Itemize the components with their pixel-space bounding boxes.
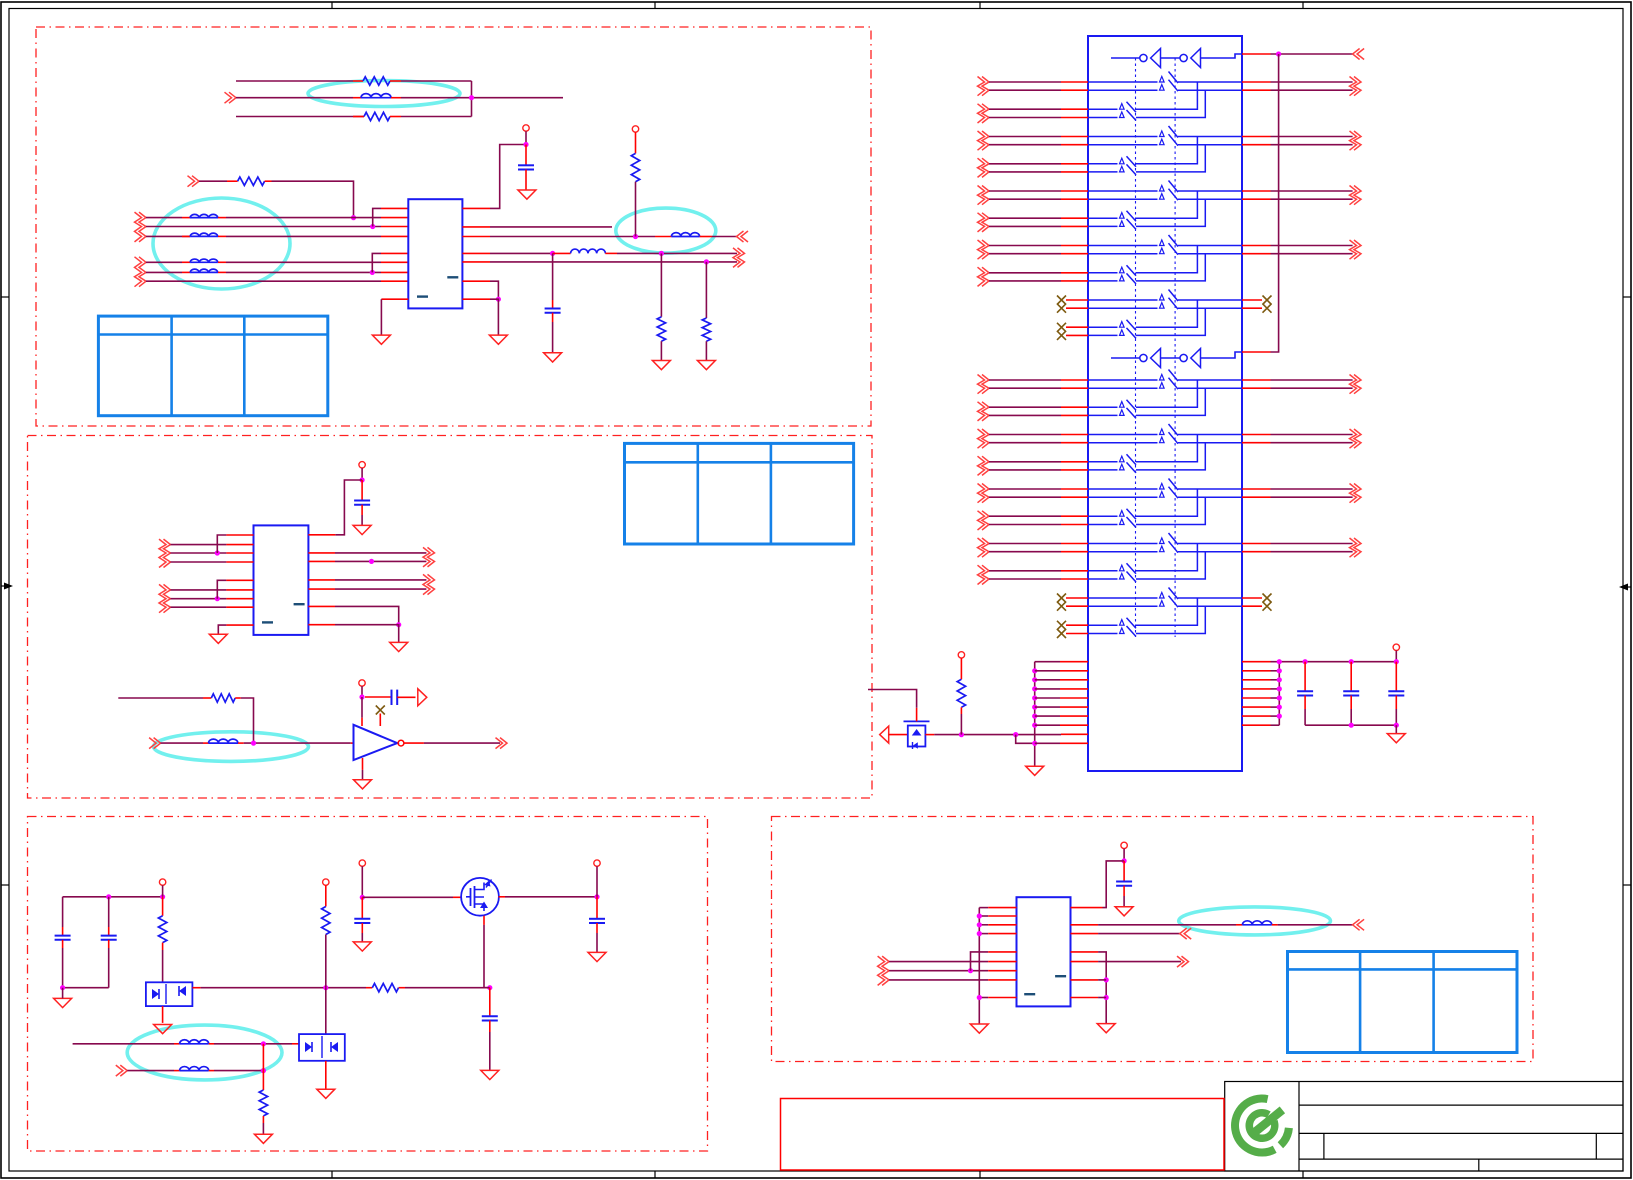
U5 switch B1 g0 blade bbox=[1127, 400, 1137, 410]
U5 switch A2 g4 line bbox=[1088, 605, 1158, 607]
junction C bottom bbox=[60, 985, 65, 990]
pin stub opamp out bbox=[404, 742, 424, 744]
port chevron U5 top g0 A bbox=[978, 77, 985, 96]
U5 switch A1 g2 out bbox=[1178, 488, 1242, 490]
U5 switch A1 g0 line bbox=[1088, 379, 1158, 381]
port chevron U5 top g3 A bbox=[978, 240, 985, 259]
pin stub D2 left bbox=[292, 1043, 299, 1045]
wire VCC4 stem bbox=[361, 686, 363, 697]
U5 switch A1 g4 contact bbox=[1160, 592, 1165, 598]
U5 switch A1 g3 line bbox=[1088, 543, 1158, 545]
wire U4 buspin4 bbox=[979, 933, 988, 935]
ground C2 bbox=[544, 353, 562, 362]
ic U4 bbox=[1017, 897, 1071, 1006]
wire bundleB row2 bbox=[146, 271, 182, 273]
pin stub U5 top g3 A b bbox=[1061, 253, 1088, 255]
pin stub Q1 source bbox=[483, 916, 485, 925]
pin stub U5 bot g2 B b bbox=[1061, 524, 1088, 526]
junction U5 lbus 7 bbox=[1032, 714, 1037, 719]
wire U2 out1 bbox=[335, 552, 426, 554]
wire U5 bottom rail bbox=[1305, 724, 1396, 726]
junction VCC4 bbox=[359, 694, 364, 699]
pin stub U5 top g1 B b bbox=[1061, 171, 1088, 173]
U5 switch B1 g2 line bbox=[1088, 515, 1118, 517]
port chevron U5 bot g0 A bbox=[978, 375, 985, 394]
port chevron U5 bot g2 B bbox=[978, 511, 985, 530]
U5 switch B1 g0 contact bbox=[1120, 402, 1125, 408]
ground C9 bbox=[481, 1070, 499, 1079]
dashed block border A (ethernet section) bbox=[36, 27, 871, 426]
wire net A-out4 bbox=[490, 261, 737, 263]
pin stub U5 top g1 B a bbox=[1061, 163, 1088, 165]
pin stub U5 top g0 out b bbox=[1242, 89, 1271, 91]
U5 switch A1 g1 contact bbox=[1160, 131, 1165, 137]
title block row line 1 bbox=[1299, 1104, 1623, 1106]
wire C bottom rail bbox=[63, 987, 109, 989]
U5 switch A2 g1 line bbox=[1088, 144, 1158, 146]
pin stub U5 rb3 bbox=[1242, 679, 1271, 681]
pin stub U5 bot g0 B b bbox=[1061, 414, 1088, 416]
pin stub U5 bot g1 A a bbox=[1061, 434, 1088, 436]
wire R12 down bbox=[960, 714, 962, 735]
pin stub U5 bot g0 out b bbox=[1242, 387, 1271, 389]
capacitor C13 bbox=[1388, 690, 1404, 692]
wire U5 top g1 out a bbox=[1271, 136, 1353, 138]
U5 switch B2 g2 contact bbox=[1120, 519, 1125, 525]
pin stub U5 inv out top bbox=[1242, 53, 1271, 55]
wire Q2 gate bbox=[868, 690, 917, 708]
wire U5 lbus pin5 bbox=[1035, 697, 1060, 699]
wire U1 pin9 gnd bbox=[380, 299, 382, 335]
pin stub U5 top g1 out b bbox=[1242, 144, 1271, 146]
wire bundleA row1 bbox=[146, 217, 182, 219]
port chevron U5 bot g0 B bbox=[978, 402, 985, 421]
wire VCC3 to U2 bbox=[335, 480, 362, 535]
wire U5 lbus pin8 bbox=[1035, 724, 1060, 726]
port chevron U5 bot g0 out bbox=[1350, 375, 1357, 394]
pin stub U5 lb8 bbox=[1060, 724, 1088, 726]
wire U5 top g1 B b bbox=[989, 171, 1061, 173]
wire U5 bot g1 out b bbox=[1271, 442, 1353, 444]
frame zone tick right bbox=[1623, 884, 1631, 886]
wire U5 lbus pin7 bbox=[1035, 715, 1060, 717]
U5 inverter output wire bbox=[1201, 54, 1243, 58]
pin stub opamp gnd bbox=[362, 758, 364, 770]
U5 switch A2 g1 blade bbox=[1169, 134, 1179, 146]
frame zone tick top bbox=[1302, 2, 1304, 9]
pin stub U5 bot g2 B a bbox=[1061, 515, 1088, 517]
title block outline bbox=[1225, 1082, 1623, 1172]
ground U4 right bbox=[1097, 1024, 1115, 1033]
pin stub U2 pin11 bbox=[308, 624, 335, 626]
analog switch U5 bbox=[1088, 36, 1242, 771]
pin stub U5 bot g4 out nc bbox=[1242, 605, 1262, 607]
pin stub FB1 right bbox=[391, 97, 401, 99]
U5 switch B2 g1 blade bbox=[1127, 164, 1137, 175]
U5 switch A1 g3 line bbox=[1088, 245, 1158, 247]
port chevron U4 out2 bbox=[1184, 928, 1191, 939]
wire U2 b1r1 bbox=[171, 544, 227, 546]
pin stub U5 top g0 B a bbox=[1061, 108, 1088, 110]
pin stub U2 pin16 bbox=[308, 552, 335, 554]
title block row line 3 bbox=[1299, 1158, 1623, 1160]
pin stub U5 bot g0 A a bbox=[1061, 379, 1088, 381]
pin stub FB7 right bbox=[238, 742, 244, 744]
capacitor C12 bbox=[1343, 690, 1359, 692]
ground R11 bbox=[254, 1134, 272, 1143]
highlight ellipse opamp bbox=[154, 732, 309, 762]
wire U5 lbus bbox=[1034, 662, 1036, 767]
pin stub FB5 right bbox=[218, 271, 226, 273]
ground U5 lbus bbox=[1026, 766, 1044, 775]
ferrite bead FB7 bbox=[209, 739, 239, 743]
op-amp U3 bbox=[354, 725, 398, 760]
pin stub Q2 left bbox=[889, 734, 908, 736]
pin stub U1 pin16 bbox=[462, 207, 490, 209]
wire L1 to port bbox=[617, 252, 737, 254]
U5 switch B1 g0 line bbox=[1088, 108, 1118, 110]
wire U1 pin11 gnd bbox=[490, 281, 498, 299]
junction U2 out2 bbox=[369, 559, 374, 564]
U5 switch B2 g4 contact bbox=[1120, 330, 1125, 336]
pin stub R3 left bbox=[227, 180, 238, 182]
power symbol VCC9 bbox=[1121, 842, 1127, 848]
pin stub U5 top g2 A a bbox=[1061, 190, 1088, 192]
pin stub U4 p2 bbox=[988, 915, 1016, 917]
resistor R8 lead2 bbox=[162, 943, 164, 950]
pin stub U5 top g0 out a bbox=[1242, 81, 1271, 83]
U5 switch A2 g4 contact bbox=[1160, 601, 1165, 607]
U5 switch B1 g2 contact bbox=[1120, 511, 1125, 517]
wire C top rail bbox=[63, 896, 163, 898]
capacitor C2 lead bbox=[552, 253, 554, 300]
U5 switch A1 g1 out bbox=[1178, 136, 1242, 138]
wire U4 buspin1 bbox=[979, 907, 988, 909]
U5 switch B2 g3 contact bbox=[1120, 275, 1125, 281]
pin stub U5 top g0 A a bbox=[1061, 81, 1088, 83]
pin stub D2 gnd bbox=[325, 1061, 327, 1089]
U5 switch A2 g1 contact bbox=[1160, 139, 1165, 145]
capacitor C1 bbox=[518, 164, 534, 166]
wire U4 p12 bbox=[1098, 979, 1106, 981]
junction bundleB row2 bbox=[370, 270, 375, 275]
U5 switch B1 g4 blade bbox=[1127, 618, 1137, 628]
U5 switch A1 g0 contact bbox=[1160, 374, 1165, 380]
U5 switch B1 g3 blade bbox=[1127, 265, 1137, 276]
pin stub U5 bot g1 out b bbox=[1242, 442, 1271, 444]
frame zone tick bottom bbox=[1302, 1171, 1304, 1178]
U5 switch B1 g4 contact bbox=[1120, 620, 1125, 626]
port chevron U5 top g1 B bbox=[978, 158, 985, 177]
wire U5 rbus bbox=[1278, 662, 1280, 726]
pin stub U4 p12 bbox=[1071, 979, 1099, 981]
U5 switch A1 g3 blade bbox=[1169, 235, 1179, 247]
pin stub L1 left bbox=[553, 252, 571, 254]
port chevron opamp out bbox=[496, 738, 503, 749]
pin stub D1 gnd bbox=[162, 1006, 164, 1023]
power symbol VCC6 bbox=[323, 879, 329, 885]
U5 switch A2 g4 blade bbox=[1169, 298, 1179, 310]
wire net A-out1 bbox=[490, 226, 612, 228]
U5 switch A1 g4 out bbox=[1178, 299, 1242, 301]
pin stub U5 top g1 A b bbox=[1061, 144, 1088, 146]
pin stub R1 right bbox=[390, 80, 401, 82]
junction U5 wrap bbox=[1276, 51, 1281, 56]
U5 switch B2 g1 line bbox=[1088, 171, 1118, 173]
U5 switch B2 g0 contact bbox=[1120, 112, 1125, 118]
U5 switch A1 g0 blade bbox=[1169, 370, 1179, 382]
U5 switch B1 g1 out bbox=[1136, 137, 1197, 164]
pin stub U1 pin3 bbox=[381, 226, 408, 228]
port chevron U5 top g0 B bbox=[978, 104, 985, 123]
pin stub U5 bot g4 out nc bbox=[1242, 597, 1262, 599]
table D bbox=[1288, 952, 1518, 1053]
port chevron U5 top g2 A bbox=[978, 186, 985, 205]
U4 pin mark a bbox=[1055, 975, 1066, 977]
pin stub U5 bot g0 B a bbox=[1061, 406, 1088, 408]
U5 switch A1 g3 contact bbox=[1160, 240, 1165, 246]
U5 switch B1 g3 out bbox=[1136, 544, 1197, 571]
U5 switch B1 g2 line bbox=[1088, 217, 1118, 219]
power symbol VCC3 bbox=[359, 462, 365, 468]
pin stub U1 pin8 bbox=[381, 280, 408, 282]
U5 inverter link wire bbox=[1161, 357, 1181, 359]
U5 switch A1 g3 out bbox=[1178, 245, 1242, 247]
wire U5 bot g3 A b bbox=[989, 551, 1061, 553]
junction U5 lbus 6 bbox=[1032, 705, 1037, 710]
capacitor C13 lead bbox=[1395, 662, 1397, 692]
U5 switch A2 g2 out bbox=[1178, 496, 1242, 498]
frame zone tick left bbox=[1, 884, 9, 886]
U5 switch A1 g4 blade bbox=[1169, 588, 1179, 600]
pin stub U5 top g3 B b bbox=[1061, 280, 1088, 282]
wire U5 rbus pin4 bbox=[1271, 688, 1280, 690]
wire U5 top g0 out a bbox=[1271, 81, 1353, 83]
U5 control dotted line 1 bbox=[1135, 58, 1137, 637]
pin stub U5 top g2 B a bbox=[1061, 217, 1088, 219]
wire VCC7 stem bbox=[361, 866, 363, 897]
wire bundleA row2 bbox=[146, 226, 381, 228]
pin stub FB3 right bbox=[218, 235, 226, 237]
pin stub U5 lb1 bbox=[1060, 661, 1088, 663]
U5 switch A1 g2 line bbox=[1088, 190, 1158, 192]
wire VCC11 stem bbox=[1395, 651, 1397, 662]
capacitor C2 lead2 bbox=[552, 313, 554, 322]
U5 switch A2 g4 blade bbox=[1169, 596, 1179, 608]
junction U5 rbus 6 bbox=[1277, 705, 1282, 710]
wire U5 rbus pin6 bbox=[1271, 706, 1280, 708]
resistor R8 bbox=[158, 916, 166, 943]
U5 switch B2 g1 contact bbox=[1120, 166, 1125, 172]
port chevron U4 in remote bbox=[1357, 919, 1364, 930]
pin stub U5 top g1 out a bbox=[1242, 136, 1271, 138]
pin stub U5 lb4 bbox=[1060, 688, 1088, 690]
pin stub U5 bot g0 out a bbox=[1242, 379, 1271, 381]
capacitor C3 lead2 bbox=[361, 505, 363, 515]
ground U4 bus bbox=[970, 1024, 988, 1033]
wire net A-top1 bbox=[236, 80, 353, 82]
junction enable a bbox=[959, 732, 964, 737]
wire U5 rbus pin2 bbox=[1271, 670, 1280, 672]
pin stub U5 top g4 B nc bbox=[1066, 334, 1088, 336]
pin stub U4 p8 bbox=[988, 970, 1016, 972]
junction brail a bbox=[1349, 723, 1354, 728]
junction U4 bus c bbox=[977, 931, 982, 936]
wire R10 to Q1 bbox=[405, 987, 490, 989]
highlight ellipse A-top bbox=[308, 81, 460, 107]
U5 switch A1 g4 out bbox=[1178, 597, 1242, 599]
ground C7 bbox=[353, 942, 371, 951]
capacitor C9 bbox=[482, 1015, 498, 1017]
capacitor C5 lead bbox=[62, 897, 64, 927]
wire net A-mid2 bbox=[272, 181, 354, 217]
U5 switch B1 g1 line bbox=[1088, 461, 1118, 463]
no-connect X U5 top g4 B nc bbox=[1057, 323, 1066, 332]
U5 switch A1 g1 line bbox=[1088, 434, 1158, 436]
pin stub U5 bot g1 B a bbox=[1061, 461, 1088, 463]
U5 switch B1 g3 contact bbox=[1120, 267, 1125, 273]
pin stub U2 pin9 bbox=[226, 624, 253, 626]
pin stub U5 rb1 bbox=[1242, 661, 1271, 663]
pin stub U4 p14 bbox=[1071, 951, 1099, 953]
wire U4 p11 bbox=[1098, 997, 1106, 999]
port chevron A-top bbox=[225, 92, 232, 103]
ferrite bead FB2 bbox=[190, 214, 218, 217]
pin stub U5 lb7 bbox=[1060, 715, 1088, 717]
junction R6 bbox=[704, 259, 709, 264]
pin stub U1 pin14 bbox=[462, 236, 490, 238]
junction U5 lbus 2 bbox=[1032, 668, 1037, 673]
pin stub Q1 right bbox=[499, 896, 506, 898]
ground U2 right bbox=[390, 642, 408, 651]
pin stub U5 bot g4 A nc bbox=[1066, 605, 1088, 607]
junction bundleA row2 bbox=[370, 224, 375, 229]
transistor Q2 with diode bbox=[908, 726, 926, 747]
U5 switch A2 g1 blade bbox=[1169, 432, 1179, 444]
pin stub FB4 left bbox=[182, 261, 190, 263]
U5 inverter 2 bbox=[1180, 54, 1187, 61]
wire U4 in3 bbox=[889, 979, 988, 981]
pin stub U5 bot g0 A b bbox=[1061, 387, 1088, 389]
U5 switch B2 g4 line bbox=[1088, 334, 1118, 336]
resistor R5 lead2 bbox=[660, 341, 662, 360]
pin stub U4 p5 bbox=[988, 997, 1016, 999]
pin stub U5 bot g2 A a bbox=[1061, 488, 1088, 490]
capacitor C10 lead bbox=[1123, 861, 1125, 882]
U5 switch B1 g2 contact bbox=[1120, 213, 1125, 219]
U5 control dotted line 2 bbox=[1174, 58, 1176, 637]
pin stub R10 left bbox=[366, 987, 372, 989]
highlight ellipse FB10 bbox=[1179, 907, 1331, 935]
wire U5 bot g1 B a bbox=[989, 461, 1061, 463]
port chevron U2 outpair2 bbox=[423, 574, 430, 594]
U5 switch A1 g1 blade bbox=[1169, 424, 1179, 436]
capacitor C11 lead bbox=[1304, 662, 1306, 692]
pin stub opamp vcc bbox=[361, 718, 363, 726]
frame zone tick top bbox=[331, 2, 333, 9]
wire U5 bot g0 out a bbox=[1271, 379, 1353, 381]
junction U1 gnd bbox=[496, 297, 501, 302]
U5 switch B2 g3 line bbox=[1088, 578, 1118, 580]
U5 switch B1 g3 out bbox=[1136, 246, 1197, 273]
wire U2 b1r2 bbox=[171, 552, 227, 554]
pin stub U4 p13 bbox=[1071, 961, 1099, 963]
junction U5 lbus 4 bbox=[1032, 686, 1037, 691]
pin stub U2 pin3 bbox=[226, 552, 253, 554]
junction U5 lbus 10 bbox=[1032, 741, 1037, 746]
U5 switch B1 g3 contact bbox=[1120, 565, 1125, 571]
wire U5 top g0 out b bbox=[1271, 89, 1353, 91]
wire C gnd stem bbox=[62, 988, 64, 999]
dashed block border C (power section) bbox=[28, 817, 708, 1152]
wire FB10 to port bbox=[1278, 924, 1353, 926]
junction U4 rgnd b bbox=[1104, 995, 1109, 1000]
pin stub U2 pin7 bbox=[226, 598, 253, 600]
wire Q1 source down bbox=[484, 925, 490, 988]
frame zone tick top bbox=[654, 2, 656, 9]
wire U2 out4 bbox=[335, 588, 426, 590]
wire U5 top rail bbox=[1271, 661, 1397, 663]
wire R8 to D1 bbox=[162, 950, 164, 982]
junction U4 in2 bbox=[968, 968, 973, 973]
wire U2 b2r2 bbox=[171, 598, 227, 600]
pin stub U2 pin4 bbox=[226, 561, 253, 563]
wire U4 out3 bbox=[1098, 961, 1181, 963]
resistor R2 bbox=[364, 112, 390, 120]
pin stub U5 bot g3 B a bbox=[1061, 570, 1088, 572]
U5 switch A2 g1 contact bbox=[1160, 437, 1165, 443]
U5 switch B2 g0 blade bbox=[1127, 110, 1137, 121]
U5 switch A2 g3 contact bbox=[1160, 546, 1165, 552]
U5 switch B1 g0 line bbox=[1088, 406, 1118, 408]
ground C8 bbox=[588, 952, 606, 961]
pin stub U5 bot g2 out a bbox=[1242, 488, 1271, 490]
power symbol VCC4 bbox=[359, 680, 365, 686]
pin stub U1 pin11 bbox=[462, 280, 490, 282]
pin stub U4 p6 bbox=[988, 951, 1016, 953]
pin stub L1 right bbox=[605, 252, 617, 254]
wire U5 lbus pin10 bbox=[1035, 742, 1060, 744]
wire FB6 to port bbox=[712, 236, 737, 238]
ground opamp bbox=[354, 780, 372, 789]
capacitor C6 bbox=[101, 935, 117, 937]
highlight ellipse bundles bbox=[153, 198, 290, 289]
pin stub U5 top g4 A nc bbox=[1066, 307, 1088, 309]
U5 switch B1 g1 out bbox=[1136, 435, 1197, 462]
pin stub R7 left bbox=[203, 697, 211, 699]
U5 switch B2 g2 out bbox=[1136, 497, 1205, 524]
U5 switch A2 g0 blade bbox=[1169, 378, 1179, 390]
port chevron U5 top bbox=[1357, 49, 1364, 60]
junction VCC3 bbox=[360, 477, 365, 482]
U5 inverter output wire bbox=[1201, 352, 1243, 358]
wire U5 lbus pin4 bbox=[1035, 688, 1060, 690]
junction U5 lbus 8 bbox=[1032, 723, 1037, 728]
wire U5 rbus pin3 bbox=[1271, 679, 1280, 681]
capacitor C1 lead2 bbox=[525, 170, 527, 191]
U1 pin mark b bbox=[447, 276, 458, 278]
wire U5 top g3 A b bbox=[989, 253, 1061, 255]
ground U1 right bbox=[489, 335, 507, 344]
wire U2 pin5 branch bbox=[217, 580, 226, 598]
port chevron U5 top g2 out bbox=[1350, 186, 1357, 205]
wire U5 bot g3 A a bbox=[989, 543, 1061, 545]
pin stub U1 pin1 bbox=[381, 207, 408, 209]
ferrite bead FB4 bbox=[190, 259, 218, 262]
junction Q1 gate net bbox=[487, 985, 492, 990]
junction bead row1 bbox=[261, 1041, 266, 1046]
capacitor C13 lead2 bbox=[1395, 696, 1397, 710]
